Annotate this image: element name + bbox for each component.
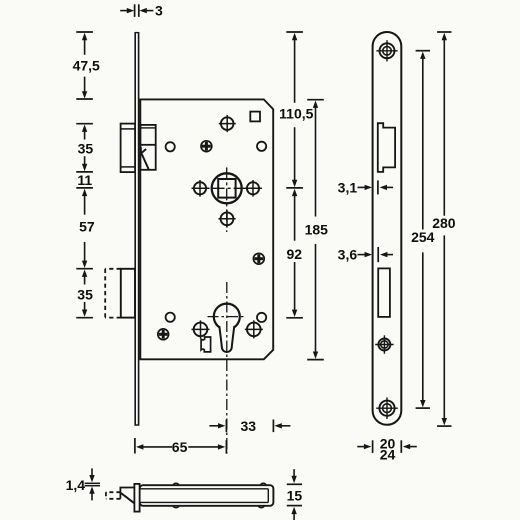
dim 92 — [292, 189, 297, 196]
euro cylinder slot — [219, 326, 234, 352]
dim 254 — [416, 50, 430, 52]
fixing hole below follower — [221, 212, 234, 225]
fixing hole right of follower — [247, 182, 259, 194]
svg-text:3,6: 3,6 — [338, 247, 358, 263]
spindle follower centerlines — [192, 187, 262, 189]
cylinder centerline horizontal — [208, 316, 247, 318]
svg-text:280: 280 — [432, 215, 456, 231]
svg-text:15: 15 — [287, 487, 303, 503]
bottom view: inner plate lines — [140, 488, 269, 490]
dim 20 / 24 — [364, 444, 371, 449]
dim 110,5 — [286, 31, 303, 33]
svg-text:33: 33 — [241, 418, 257, 434]
faceplate edge (main view, vertical double line) — [134, 32, 136, 426]
fixing hole left of cylinder — [194, 323, 208, 337]
svg-text:47,5: 47,5 — [73, 58, 100, 74]
svg-text:35: 35 — [78, 140, 94, 156]
square hole top right — [250, 112, 260, 122]
faceplate screw hole middle — [378, 339, 390, 351]
euro cylinder circle — [214, 304, 240, 330]
faceplate screw hole top — [380, 43, 395, 58]
small hole lower right — [257, 313, 266, 322]
bottom view: faceplate bar — [134, 484, 139, 512]
dim 280 — [437, 31, 451, 33]
small hole upper left — [166, 142, 175, 151]
deadbolt (main view, retracted solid) — [121, 269, 135, 318]
lock case body outline — [140, 99, 273, 359]
svg-text:92: 92 — [287, 246, 303, 262]
svg-text:185: 185 — [305, 221, 329, 237]
dim 33 — [225, 420, 227, 433]
svg-text:110,5: 110,5 — [279, 106, 313, 122]
screw upper middle — [201, 141, 212, 152]
svg-text:254: 254 — [411, 229, 435, 245]
cylinder centerline vertical (dash-dot) — [226, 282, 228, 454]
dim 185 — [307, 99, 324, 101]
dim 35 upper — [76, 123, 93, 125]
bottom view: latch bolt side — [120, 488, 134, 499]
svg-text:65: 65 — [172, 439, 188, 455]
spindle follower hub — [212, 173, 242, 203]
svg-text:3,1: 3,1 — [338, 179, 358, 195]
fixing hole top (cross circle) — [221, 117, 234, 130]
latch bolt (protruding, main view) — [121, 124, 136, 173]
fixing hole left of follower — [194, 182, 206, 194]
latch tail box inside case — [140, 125, 155, 170]
dim 3 (faceplate thickness) — [127, 8, 134, 13]
dim 47,5 — [76, 31, 93, 33]
small hole upper right — [257, 142, 266, 151]
stamped tab near cylinder — [201, 337, 211, 352]
dim 35 lower — [82, 270, 87, 277]
svg-text:3: 3 — [155, 3, 163, 19]
faceplate screw hole bottom — [379, 401, 394, 416]
faceplate latch cutout — [378, 123, 395, 172]
small hole lower left — [166, 313, 175, 322]
fixing hole right of cylinder — [247, 323, 261, 337]
screw lower left — [158, 329, 169, 340]
svg-text:57: 57 — [79, 218, 95, 234]
faceplate front view outline — [373, 32, 402, 425]
bottom view: rivet nubs — [173, 483, 179, 485]
deadbolt thrown position (dashed) — [105, 268, 121, 270]
svg-text:1,4: 1,4 — [66, 477, 86, 493]
bottom view: latch thrown (dashed) — [106, 491, 121, 493]
dim 65 — [134, 438, 136, 454]
screw mid right — [253, 253, 264, 264]
dim 57 — [82, 189, 87, 196]
dim 15 — [291, 476, 296, 483]
svg-text:11: 11 — [77, 172, 92, 188]
svg-text:35: 35 — [77, 286, 93, 302]
faceplate deadbolt cutout — [378, 268, 390, 317]
bottom view: case outline — [140, 485, 274, 506]
latch spring — [141, 147, 149, 169]
svg-text:24: 24 — [380, 446, 396, 462]
